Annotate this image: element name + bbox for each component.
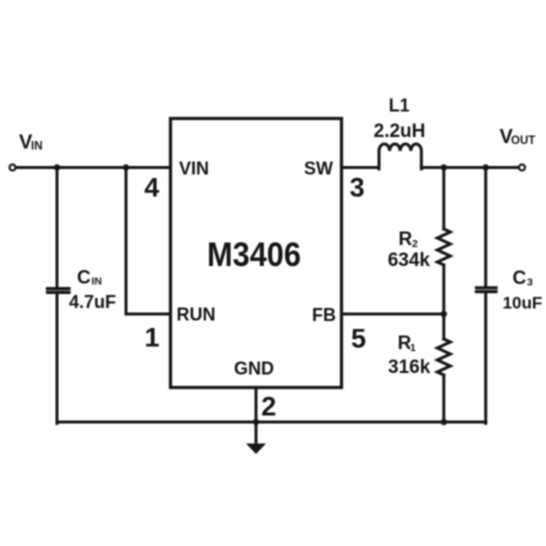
wire top rail input — [16, 166, 170, 169]
node junction RUN top — [123, 164, 129, 170]
wire RUN branch — [126, 168, 171, 315]
label CIN — [77, 268, 102, 289]
wire inductor to output terminal — [421, 166, 518, 169]
svg-text:RUN: RUN — [177, 305, 216, 325]
op-amp U1 M3406 box — [171, 119, 342, 388]
svg-text:2.2uH: 2.2uH — [374, 121, 426, 142]
svg-text:OUT: OUT — [511, 135, 535, 147]
label R2 — [399, 229, 419, 250]
svg-text:FB: FB — [312, 305, 336, 325]
svg-text:GND: GND — [234, 359, 274, 379]
node junction FB divider — [441, 311, 447, 317]
svg-text:5: 5 — [351, 324, 366, 354]
svg-text:3: 3 — [350, 173, 365, 203]
label VOUT net — [500, 126, 536, 148]
node junction R1 bottom — [441, 419, 447, 425]
resistor R1 — [437, 339, 450, 375]
node junction R2 top — [441, 164, 447, 170]
svg-text:SW: SW — [304, 159, 333, 179]
terminal VOUT output — [519, 165, 525, 171]
wire GND pin stem — [255, 388, 258, 445]
wire CIN branch upper — [56, 168, 59, 287]
wire R1 lower lead — [442, 375, 445, 423]
wire SW to inductor — [342, 166, 380, 169]
inductor L1 — [379, 144, 421, 169]
label R1 — [398, 333, 416, 354]
svg-text:4.7uF: 4.7uF — [69, 292, 116, 312]
svg-text:L1: L1 — [389, 96, 410, 116]
wire bottom rail — [57, 421, 486, 424]
capacitor CIN — [48, 289, 70, 293]
svg-text:IN: IN — [92, 276, 103, 288]
capacitor C3 — [477, 288, 497, 292]
wire R1 upper lead — [442, 314, 445, 339]
label C3 — [513, 268, 534, 289]
svg-text:1: 1 — [410, 342, 416, 354]
wire CIN branch lower — [56, 295, 59, 424]
svg-text:10uF: 10uF — [503, 294, 543, 313]
wire R2 lower lead — [442, 265, 445, 314]
svg-text:316k: 316k — [388, 357, 431, 378]
wire FB to divider — [342, 313, 444, 316]
svg-text:3: 3 — [527, 277, 533, 289]
ground — [246, 444, 266, 455]
svg-text:VIN: VIN — [179, 159, 209, 179]
wire C3 upper lead — [484, 168, 487, 287]
wire R2 upper lead — [442, 168, 445, 230]
svg-text:2: 2 — [412, 238, 418, 250]
svg-text:634k: 634k — [388, 250, 431, 271]
svg-text:C: C — [77, 268, 91, 289]
node junction C3 top — [483, 164, 489, 170]
label VIN net — [19, 132, 43, 154]
svg-text:M3406: M3406 — [207, 236, 301, 274]
node junction CIN top — [54, 164, 60, 170]
svg-text:IN: IN — [31, 141, 43, 153]
svg-text:R: R — [399, 229, 413, 250]
svg-text:C: C — [513, 268, 527, 289]
resistor R2 — [437, 229, 450, 265]
node junction GND bottom — [253, 419, 259, 425]
svg-text:4: 4 — [144, 173, 159, 203]
terminal VIN input — [10, 165, 16, 171]
wire C3 lower lead — [484, 295, 487, 424]
svg-text:2: 2 — [261, 392, 276, 422]
svg-text:1: 1 — [144, 323, 159, 353]
